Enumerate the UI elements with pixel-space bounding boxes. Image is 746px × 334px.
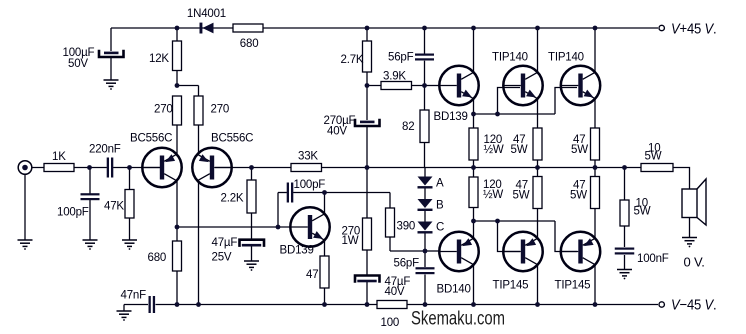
node BD139a emitter (471, 112, 476, 117)
input jack J1 (18, 161, 32, 175)
wire to speaker (673, 168, 690, 190)
resistor 1K (44, 164, 74, 172)
node mid rail (593, 165, 598, 170)
label 10 5W out (645, 143, 662, 163)
wire 47c links (537, 168, 539, 239)
wire TIP140b base (555, 88, 577, 115)
svg-text:40V: 40V (385, 286, 405, 298)
svg-text:BD139: BD139 (434, 111, 468, 123)
node 12K bottom (175, 83, 180, 88)
node BD139a base (422, 83, 427, 88)
label 47 5W a (511, 134, 528, 156)
node bottom rail (535, 302, 540, 307)
wire 390 to diode node (390, 237, 425, 251)
label 47 driver (306, 269, 318, 281)
wire TIP140b emitter to 47 (594, 99, 596, 168)
svg-text:25V: 25V (212, 252, 232, 264)
svg-text:½W: ½W (483, 189, 503, 201)
capacitor 47uF 40V (355, 276, 380, 283)
label 50V (68, 58, 88, 70)
resistor 2.2K (247, 180, 256, 213)
wire 2.7K column (366, 28, 368, 86)
resistor 47 5W c (533, 177, 542, 209)
svg-text:TIP140: TIP140 (492, 52, 528, 64)
label 680 b (148, 252, 167, 264)
label 2.2K (221, 193, 244, 205)
svg-text:100pF: 100pF (294, 179, 326, 191)
wire BD139a emitter down (473, 99, 475, 114)
wire zobel column (624, 168, 626, 248)
label 270 1W (342, 226, 361, 247)
wire 100pF column (89, 168, 91, 241)
wire TIP145b collector (594, 265, 596, 305)
wire input to Q1 base (32, 167, 163, 169)
ground 100pF (83, 240, 98, 250)
node top rail (593, 26, 598, 31)
speaker LS1 (682, 179, 706, 225)
wire BD139a base (425, 85, 440, 87)
transistor Q8 TIP145 (503, 232, 542, 271)
node mid rail (622, 165, 627, 170)
resistor 270 1W (363, 218, 372, 250)
svg-text:82: 82 (402, 121, 414, 133)
resistor 120 b (469, 177, 478, 208)
node 3.9K left (365, 83, 370, 88)
wire 120a links (473, 114, 475, 168)
label 680 top (240, 38, 259, 50)
wire TIP145a collector (537, 265, 539, 305)
node BD139b collector (322, 190, 327, 195)
wire upper bias row (474, 113, 556, 115)
node mid rail (471, 165, 476, 170)
node top rail (422, 26, 427, 31)
transistor Q5 BD140 (439, 232, 478, 271)
label TIP140 b (548, 52, 584, 64)
label V+45 (671, 21, 717, 38)
svg-text:680: 680 (148, 252, 167, 264)
svg-text:B: B (436, 200, 444, 212)
label 56pF a (388, 51, 414, 63)
wire BD140 collector to rail (473, 265, 475, 305)
svg-text:47K: 47K (104, 201, 124, 213)
transistor Q7 TIP140 (561, 66, 600, 105)
svg-text:5W: 5W (511, 144, 528, 156)
wire 270a to Q1 emitter (176, 125, 178, 155)
transistor Q9 TIP145 (561, 232, 600, 271)
capacitor 100nF (615, 248, 635, 255)
resistor 100 (377, 301, 407, 309)
resistor 120 a (469, 128, 478, 160)
ground 100nF (617, 270, 632, 280)
wire 82 column (424, 86, 426, 168)
wire TIP140a collector (537, 28, 539, 72)
svg-text:TIP140: TIP140 (548, 52, 584, 64)
label 47nF (121, 290, 147, 302)
svg-text:5W: 5W (634, 206, 651, 218)
diode A (418, 177, 433, 189)
label 33K (298, 151, 318, 163)
wire BD139b emitter to 47 (324, 240, 326, 256)
resistor 47 5W a (533, 128, 542, 160)
ground 47nF (117, 311, 132, 321)
wire Q2 collector to bottom rail (198, 181, 200, 305)
wire 270b to Q2 emitter (198, 86, 200, 155)
wire diode chain links (424, 168, 426, 252)
label BC556C a (130, 133, 172, 145)
svg-text:100pF: 100pF (57, 207, 89, 219)
wire 270uF column (366, 86, 368, 168)
resistor 270 b (194, 96, 203, 125)
svg-text:56pF: 56pF (394, 258, 420, 270)
transistor Q1 BC556C (142, 148, 181, 187)
wire emitter row to 270s (177, 85, 199, 87)
capacitor C1 100uF (99, 50, 124, 57)
svg-text:1K: 1K (52, 151, 66, 163)
resistor 3.9K (381, 82, 412, 90)
svg-text:½W: ½W (484, 144, 504, 156)
wire TIP145a base (498, 221, 521, 252)
watermark Skemaku.com (411, 309, 505, 330)
label 100 (381, 317, 400, 329)
node Q2 base (249, 165, 254, 170)
node bottom rail (365, 302, 370, 307)
label 100uF (63, 47, 95, 59)
svg-text:50V: 50V (68, 58, 88, 70)
wire 12K column (176, 28, 178, 86)
capacitor 100pF b (287, 183, 294, 203)
node mid rail (535, 165, 540, 170)
svg-text:A: A (436, 178, 444, 190)
transistor Q3 BD139 (290, 207, 329, 246)
wire 100pF2 left leg (278, 193, 287, 228)
svg-text:100nF: 100nF (637, 253, 669, 265)
label 120 b (483, 179, 503, 201)
svg-text:1W: 1W (342, 235, 359, 247)
svg-text:5W: 5W (513, 190, 530, 202)
wire 3.9K row (367, 85, 425, 87)
label 47uF40 (385, 276, 411, 288)
transistor Q2 BC556C (192, 148, 231, 187)
capacitor 100pF input (81, 193, 100, 200)
label 390 (397, 221, 416, 233)
diode D1 1N4001 (200, 23, 214, 34)
node BD140 emitter (471, 219, 476, 224)
wire 100nF to ground (624, 255, 626, 269)
label 100pF b (294, 179, 326, 191)
wire 56pF2 to bottom rail (424, 275, 426, 305)
svg-text:2.7K: 2.7K (341, 54, 364, 66)
label 25V (212, 252, 232, 264)
svg-text:5W: 5W (571, 144, 588, 156)
node diode bottom (423, 249, 428, 254)
svg-text:C: C (436, 222, 444, 234)
ground 47uF (244, 261, 259, 271)
ground speaker (682, 238, 697, 248)
node bottom rail (423, 302, 428, 307)
capacitor 56pF b (416, 267, 435, 274)
svg-text:47nF: 47nF (121, 290, 147, 302)
wire 120b links (473, 168, 475, 222)
resistor 47 5W b (591, 128, 600, 160)
wire input jack ground (24, 174, 26, 240)
wire bottom rail (124, 304, 658, 306)
resistor 10 5W zobel (620, 200, 629, 226)
svg-text:TIP145: TIP145 (555, 280, 591, 292)
wire 270-1W column (366, 168, 368, 276)
svg-text:0 V.: 0 V. (684, 255, 705, 270)
svg-text:5W: 5W (570, 190, 587, 202)
svg-text:3.9K: 3.9K (383, 71, 406, 83)
transistor Q4 BD139 (439, 66, 478, 105)
ground 100uF (104, 80, 119, 90)
ground 47K (122, 240, 137, 250)
node top rail (535, 26, 540, 31)
label TIP145 a (493, 280, 529, 292)
label 220nF (89, 144, 121, 156)
label BD139 b (280, 245, 314, 257)
label 40V b (385, 286, 405, 298)
label 82 (402, 121, 414, 133)
svg-text:TIP145: TIP145 (493, 280, 529, 292)
capacitor 270uF 40V (355, 119, 380, 126)
diode B (418, 199, 433, 211)
svg-text:2.2K: 2.2K (221, 193, 244, 205)
resistor 47 5W d (591, 177, 600, 209)
wire 100uF column (110, 28, 112, 51)
label TIP145 b (555, 280, 591, 292)
resistor 680 top (233, 24, 263, 32)
svg-text:V−45 V.: V−45 V. (671, 297, 717, 314)
label A (436, 178, 444, 190)
wire BD139b collector (324, 193, 326, 215)
node TIP145a base drop (495, 219, 500, 224)
label 1K (52, 151, 66, 163)
svg-text:390: 390 (397, 221, 416, 233)
label 47K (104, 201, 124, 213)
wire 47uF40 to bottom rail (366, 282, 368, 305)
label 40V a (327, 126, 347, 138)
svg-text:270: 270 (154, 104, 173, 116)
label V-45 (671, 297, 717, 314)
svg-text:40V: 40V (327, 126, 347, 138)
resistor 680 b (173, 241, 182, 271)
node bottom rail (593, 302, 598, 307)
wire 47 to bottom rail (324, 288, 326, 305)
wire 47K column (129, 168, 131, 241)
wire BD139a collector to rail (473, 28, 475, 72)
node feedback cap (276, 225, 281, 230)
ground input (18, 240, 33, 250)
node bottom rail (322, 302, 327, 307)
svg-text:BD140: BD140 (437, 284, 471, 296)
label 56pF b (394, 258, 420, 270)
wire speaker to ground (689, 218, 691, 238)
node 220nF out (127, 165, 132, 170)
wire 47uF25 to ground (251, 247, 253, 261)
node top rail (175, 26, 180, 31)
wire feedback row (177, 226, 291, 228)
label 47 5W d (570, 180, 587, 202)
wire 100pF2 to 390 (293, 193, 390, 209)
terminal V+ (659, 25, 664, 30)
node top rail (365, 26, 370, 31)
wire diode node to BD140 base (425, 251, 440, 267)
svg-text:47: 47 (306, 269, 318, 281)
svg-text:47µF: 47µF (212, 237, 238, 249)
label BD140 (437, 284, 471, 296)
wire 56pF column (424, 28, 426, 86)
wire TIP140a base (498, 88, 521, 115)
wire 47d links (594, 168, 596, 239)
svg-text:270: 270 (211, 104, 230, 116)
node feedback left (175, 225, 180, 230)
wire 100uF to ground (110, 58, 112, 80)
svg-text:Skemaku.com: Skemaku.com (411, 309, 505, 330)
capacitor 47uF 25V (240, 240, 265, 247)
resistor 82 (420, 110, 429, 143)
svg-text:100: 100 (381, 317, 400, 329)
wire V+ rail (111, 27, 658, 29)
svg-text:5W: 5W (645, 151, 662, 163)
svg-text:56pF: 56pF (388, 51, 414, 63)
svg-text:V+45 V.: V+45 V. (671, 21, 717, 38)
svg-text:12K: 12K (149, 53, 169, 65)
node TIP140a base drop (495, 112, 500, 117)
capacitor 47nF (149, 296, 156, 313)
label 47uF25 (212, 237, 238, 249)
node top rail (471, 26, 476, 31)
label C (436, 222, 444, 234)
label 1N4001 (187, 8, 226, 20)
label 100pF (57, 207, 89, 219)
svg-text:33K: 33K (298, 151, 318, 163)
resistor 33K (291, 164, 322, 172)
node bottom rail (196, 302, 201, 307)
label 47 5W b (571, 134, 588, 156)
wire 680b to bottom rail (176, 271, 178, 305)
label BD139 a (434, 111, 468, 123)
wire BD140 emitter up (473, 221, 475, 238)
wire 47nF ground stub (123, 305, 125, 312)
wire 2.2K column (251, 168, 253, 240)
node bottom rail (471, 302, 476, 307)
svg-text:BD139: BD139 (280, 245, 314, 257)
node bottom rail (175, 302, 180, 307)
resistor 2.7K (363, 41, 372, 72)
resistor 47K (125, 190, 134, 219)
node input (87, 165, 92, 170)
terminal V- (659, 302, 664, 307)
label 100nF (637, 253, 669, 265)
resistor 390 (386, 208, 395, 237)
node mid rail (365, 165, 370, 170)
label 270 b (211, 104, 230, 116)
label 47 5W c (513, 180, 530, 202)
wire Q1 collector down (176, 181, 178, 242)
label BC556C b (211, 133, 253, 145)
capacitor 56pF a (415, 54, 434, 61)
svg-text:680: 680 (240, 38, 259, 50)
label 120 a (484, 134, 504, 156)
label 270 a (154, 104, 173, 116)
svg-text:220nF: 220nF (89, 144, 121, 156)
wire TIP140a emitter to 47 (537, 99, 539, 168)
resistor 12K (173, 41, 182, 71)
label 2.7K (341, 54, 364, 66)
svg-text:BC556C: BC556C (130, 133, 172, 145)
label 270uF (324, 115, 356, 127)
resistor 270 a (173, 96, 182, 125)
label 10 5W zobel (634, 198, 651, 218)
label 3.9K (383, 71, 406, 83)
wire lower bias row (474, 220, 556, 222)
svg-text:1N4001: 1N4001 (187, 8, 226, 20)
svg-text:BC556C: BC556C (211, 133, 253, 145)
wire TIP145b base (555, 221, 577, 252)
label 12K (149, 53, 169, 65)
resistor 10 5W out (641, 164, 673, 172)
wire output mid rail (215, 167, 641, 169)
resistor 47 driver (320, 256, 329, 288)
label B (436, 200, 444, 212)
label 0V (684, 255, 705, 270)
label TIP140 a (492, 52, 528, 64)
transistor Q6 TIP140 (503, 66, 542, 105)
wire TIP140b collector (594, 28, 596, 72)
capacitor 220nF (107, 158, 114, 178)
diode C (418, 222, 433, 234)
